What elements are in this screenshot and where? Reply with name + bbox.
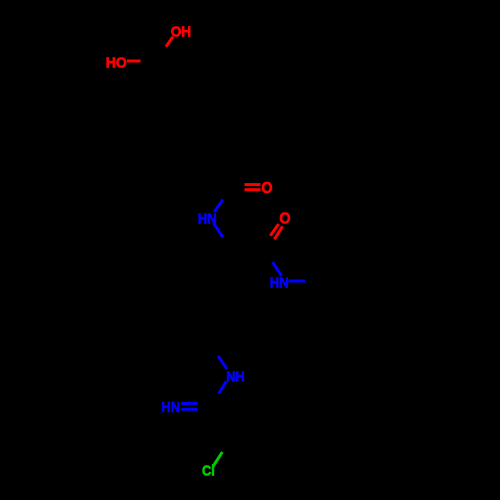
wire double bond C4=O4 right line <box>274 226 282 239</box>
wire double bond N4=C5 lower line <box>181 408 197 411</box>
wire bond C4-N2 (blue half) <box>273 262 282 276</box>
wire bond N1-C3 (blue half) <box>214 200 223 213</box>
wire double bond C4=O4 left line <box>270 224 278 236</box>
svg-text:NH: NH <box>226 368 244 385</box>
wire double bond C3=O3 lower line <box>245 188 261 191</box>
wire bond C1-O1 (red half) <box>166 37 173 47</box>
svg-text:O: O <box>261 180 272 197</box>
wire double bond N4=C5 upper line <box>181 402 198 405</box>
svg-text:HN: HN <box>270 274 289 291</box>
svg-text:HN: HN <box>161 399 180 416</box>
wire bond N3-C5 (blue half) <box>219 381 227 393</box>
wire double bond C3=O3 upper line <box>245 183 261 186</box>
wire bond CH2-Cl1 (green half) <box>213 452 222 467</box>
svg-text:HO: HO <box>106 55 127 72</box>
svg-text:O: O <box>279 210 290 227</box>
wire bond O2-C2 (red half) <box>127 60 141 63</box>
wire bond N2-CH3 (blue half) <box>289 280 306 283</box>
wire bond N1-Calpha (blue half) <box>214 223 224 238</box>
wire bond Cdelta-N3 (blue half) <box>218 356 227 369</box>
